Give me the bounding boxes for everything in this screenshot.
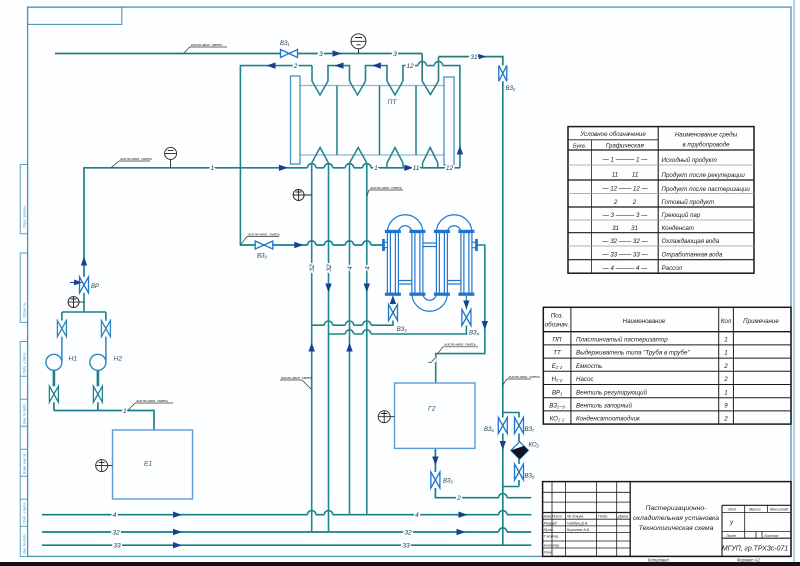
valve labels <box>91 41 540 485</box>
svg-text:— 3 ——— 3 —: — 3 ——— 3 — <box>602 212 649 219</box>
pump Н2 <box>90 354 106 370</box>
wire pump discharge stubs <box>54 370 98 386</box>
ТТ shell bridges <box>398 243 461 284</box>
arrow left on line 2 <box>267 62 276 68</box>
top-left corner stamp notch <box>28 7 122 24</box>
svg-text:Пластинчатый пастеризатор: Пластинчатый пастеризатор <box>576 337 668 344</box>
plate pasteurizer ПТ body edges <box>300 86 444 156</box>
svg-text:32: 32 <box>309 264 316 272</box>
svg-text:4: 4 <box>347 266 354 270</box>
svg-text:Подп. и дата: Подп. и дата <box>22 353 26 374</box>
svg-text:Копировал: Копировал <box>648 557 669 562</box>
svg-text:— 12 —— 12 —: — 12 —— 12 — <box>601 186 648 193</box>
gauge at valve ВР <box>68 297 84 308</box>
svg-text:Пастеризационно-: Пастеризационно- <box>646 505 708 512</box>
wire drop line2 to funnel 1 <box>311 66 313 81</box>
svg-text:31 31: 31 31 <box>612 225 638 232</box>
svg-text:Кирилов А.Б.: Кирилов А.Б. <box>567 527 591 532</box>
svg-text:11 11: 11 11 <box>612 172 639 179</box>
arrow left on bridge 2-3 <box>372 62 381 68</box>
ТТ top bend tubes 1-2 <box>387 215 423 233</box>
svg-text:Утв.: Утв. <box>544 550 553 555</box>
left margin column upper block 1 <box>20 165 27 234</box>
svg-text:1: 1 <box>210 165 214 172</box>
svg-text:кисло-мол. смесь: кисло-мол. смесь <box>121 156 152 161</box>
equipment labels <box>69 99 436 468</box>
valve pump 1 discharge <box>49 386 58 402</box>
svg-text:Букв.: Букв. <box>573 144 586 150</box>
break symbol on Г2 feed pipe <box>428 356 436 362</box>
svg-text:ВР₁: ВР₁ <box>552 389 562 396</box>
svg-text:Г2: Г2 <box>428 406 436 413</box>
arrow up on riser 32a <box>309 343 315 352</box>
wire condensate branch split <box>503 413 519 487</box>
svg-text:Вентиль регулирующий: Вентиль регулирующий <box>576 389 648 396</box>
valve ВЗ5 <box>431 472 440 488</box>
svg-text:Графическая: Графическая <box>606 143 645 150</box>
arrow right on line 31 <box>477 53 486 59</box>
left margin lower block cells <box>20 342 27 557</box>
svg-text:Лист: Лист <box>725 533 737 538</box>
svg-text:— 32 —— 32 —: — 32 —— 32 — <box>601 238 648 245</box>
valve pump 2 discharge <box>93 386 102 402</box>
ТТ tube 3 <box>436 233 447 294</box>
svg-text:Взам. инв. №: Взам. инв. № <box>22 453 26 474</box>
svg-text:№ докум.: № докум. <box>567 514 584 519</box>
wire vertical 4 riser a <box>349 163 351 515</box>
steam trap КО2 <box>511 442 528 459</box>
svg-text:2: 2 <box>293 63 298 70</box>
svg-text:ВЗ₉: ВЗ₉ <box>257 254 268 260</box>
svg-text:ПТ: ПТ <box>388 99 398 106</box>
svg-text:Продукт после пастеризации: Продукт после пастеризации <box>662 186 751 193</box>
svg-text:Перв. примен.: Перв. примен. <box>22 205 26 228</box>
ТТ tube 4 <box>461 233 472 294</box>
svg-text:Продукт после рекуперации: Продукт после рекуперации <box>662 172 746 179</box>
svg-text:31: 31 <box>470 54 478 61</box>
ПТ bottom peak 3 with leg stubs <box>387 148 403 168</box>
svg-text:ВЗ₂: ВЗ₂ <box>506 86 517 92</box>
wire condensate riser funnel4 to line 31 <box>438 57 440 81</box>
svg-text:Инв. № дубл.: Инв. № дубл. <box>22 403 26 424</box>
svg-text:Вентиль запорный: Вентиль запорный <box>576 403 632 410</box>
page edge line right <box>793 0 794 566</box>
ТТ bottom bend tubes 2-3 <box>412 294 448 312</box>
wire vertical 32 riser a <box>311 163 313 532</box>
ТТ tube 2 <box>412 233 423 294</box>
svg-text:Подп. и дата: Подп. и дата <box>22 503 26 524</box>
valve ВЗ7 <box>515 418 524 434</box>
wire pump outlet header to tank Е1 <box>54 402 154 430</box>
svg-text:кисло-мол. смесь: кисло-мол. смесь <box>281 375 312 380</box>
svg-text:в трубопроводе: в трубопроводе <box>682 142 730 149</box>
arrow up on riser 4a <box>346 343 352 352</box>
wire line 2 top with drop to valve ВЗ9 branch <box>240 66 312 246</box>
ПТ left end plate <box>291 76 301 164</box>
svg-text:Дата: Дата <box>617 514 629 519</box>
tank Г2 <box>395 383 476 448</box>
valve ВЗ8 <box>515 464 524 480</box>
svg-text:ВЗ₃: ВЗ₃ <box>397 327 408 333</box>
svg-text:Конденсатоотводчик: Конденсатоотводчик <box>576 416 641 423</box>
title block frame <box>543 482 791 557</box>
wire bridge funnel2-funnel3 <box>366 66 388 81</box>
svg-text:ВЗ₁: ВЗ₁ <box>280 41 290 47</box>
gauge at pasteurizer water outlet <box>293 190 312 201</box>
wire bottom line 33 <box>42 544 531 546</box>
left margin column upper block 2 <box>20 253 27 322</box>
ПТ top funnel 1 <box>312 81 328 95</box>
svg-text:ВЗ₄: ВЗ₄ <box>469 331 480 337</box>
valve pump 1 suction <box>57 321 66 337</box>
valve ВЗ6 <box>498 418 507 434</box>
svg-text:Изм.Лист: Изм.Лист <box>544 514 563 519</box>
svg-text:— 4 ——— 4 —: — 4 ——— 4 — <box>602 265 649 272</box>
svg-text:Отработанная вода: Отработанная вода <box>662 252 723 259</box>
arrow down on holder outlet drop <box>482 321 488 330</box>
svg-text:Греющий пар: Греющий пар <box>662 212 701 219</box>
svg-text:— 33 —— 33 —: — 33 —— 33 — <box>601 252 648 259</box>
svg-text:2 2: 2 2 <box>613 199 637 206</box>
svg-text:32: 32 <box>112 529 120 536</box>
ТТ top bend tubes 3-4 <box>436 215 472 233</box>
svg-text:кисло-мол. смесь: кисло-мол. смесь <box>137 398 168 403</box>
arrow down on riser 4b <box>364 284 370 293</box>
arrow down above valve ВЗ4 <box>463 301 469 310</box>
legend table (Условные обозначения) <box>568 127 754 274</box>
pump Н1 <box>46 354 62 370</box>
arrow left on bridge 1-2 <box>335 62 344 68</box>
svg-text:1: 1 <box>724 350 727 357</box>
svg-text:4: 4 <box>113 512 117 519</box>
wire line 12 from funnel3 over top to right side <box>403 66 460 168</box>
parts list table <box>543 307 791 424</box>
svg-text:кисло-мол. смесь: кисло-мол. смесь <box>509 374 540 379</box>
valve ВЗ1 <box>281 50 298 58</box>
ПТ bottom peak 1 <box>312 148 329 164</box>
arrow right on valve ВЗ9 line <box>294 242 303 248</box>
svg-text:1: 1 <box>374 165 378 172</box>
svg-text:Справ. №: Справ. № <box>22 302 26 318</box>
svg-text:Наименование среды: Наименование среды <box>675 132 738 139</box>
arrow right on line 32 left <box>173 529 182 535</box>
valve ВЗ2 <box>499 65 507 81</box>
svg-text:кисло-мол. смесь: кисло-мол. смесь <box>445 342 476 347</box>
wire pump suction stubs <box>62 337 106 362</box>
svg-text:3: 3 <box>319 51 323 58</box>
wire valve ВР to pumps header <box>62 293 106 321</box>
svg-text:Кол: Кол <box>721 318 732 325</box>
svg-text:Е1: Е1 <box>144 461 153 468</box>
wire cooling water line to valve ВЗ3 <box>312 321 393 326</box>
svg-text:3: 3 <box>393 51 397 58</box>
svg-text:Конденсат: Конденсат <box>662 225 694 232</box>
svg-text:Технологическая схема: Технологическая схема <box>639 525 714 532</box>
arrow right on line 33 left <box>173 542 182 548</box>
svg-text:Н.контр.: Н.контр. <box>544 543 560 548</box>
svg-text:Рассол: Рассол <box>662 265 683 272</box>
ПТ section dividers <box>337 86 416 156</box>
ТТ drain stubs to valves <box>393 296 467 310</box>
svg-text:Н1: Н1 <box>69 356 78 363</box>
pipe name callouts <box>111 42 540 411</box>
svg-text:МГУП, гр.ТРХЗс-071: МГУП, гр.ТРХЗс-071 <box>722 546 789 553</box>
svg-text:Охлаждающая вода: Охлаждающая вода <box>662 238 720 245</box>
svg-text:1: 1 <box>724 389 727 396</box>
svg-text:Формат А2: Формат А2 <box>737 557 761 562</box>
svg-text:КО₂: КО₂ <box>529 443 540 449</box>
svg-text:Листов: Листов <box>763 533 778 538</box>
svg-text:ВЗ₈: ВЗ₈ <box>525 474 536 480</box>
arrow right on line 11 <box>404 165 413 171</box>
wire bottom line 4 <box>42 514 531 516</box>
svg-text:ВЗ₇: ВЗ₇ <box>525 427 536 433</box>
svg-text:Поз.: Поз. <box>551 313 563 320</box>
svg-text:ВЗ₁₋₉: ВЗ₁₋₉ <box>549 403 565 410</box>
svg-text:33: 33 <box>113 543 121 550</box>
svg-text:— 1 ——— 1 —: — 1 ——— 1 — <box>602 157 649 164</box>
svg-text:Выдерживатель типа "Труба в тр: Выдерживатель типа "Труба в трубе" <box>576 350 690 357</box>
wire tank Г2 outlet to valve ВЗ5 and line 2 <box>435 448 531 497</box>
wire bottom line 32 <box>42 531 531 533</box>
wire valve ВЗ9 line to tube holder inlet <box>240 244 383 246</box>
svg-text:Чайбук Д.А.: Чайбук Д.А. <box>567 520 588 525</box>
ТТ tube 1 <box>387 233 398 294</box>
svg-text:Масса: Масса <box>749 506 761 511</box>
crossing gaps <box>308 64 508 534</box>
crossing jump arcs <box>308 61 508 532</box>
svg-text:Наименование: Наименование <box>623 318 666 325</box>
arrow right on line 4 left <box>173 512 182 518</box>
arrow down on condensate branch <box>500 441 506 450</box>
page bottom dark strip <box>0 562 800 566</box>
arrow up to valve ВР <box>81 257 87 266</box>
ТТ outlet stub <box>472 242 476 247</box>
wire brine line to valve ВЗ4 <box>329 326 467 335</box>
valve ВЗ3 <box>389 305 398 321</box>
svg-text:кисло-мол. смесь: кисло-мол. смесь <box>371 185 402 190</box>
svg-text:Н2: Н2 <box>114 356 123 363</box>
svg-text:2: 2 <box>723 376 728 383</box>
title block document title <box>633 505 788 553</box>
wire condensate main vertical <box>502 81 504 545</box>
svg-text:11: 11 <box>413 165 420 172</box>
svg-text:1: 1 <box>724 337 727 344</box>
svg-text:Емкость: Емкость <box>576 363 602 370</box>
parts list text <box>545 313 780 423</box>
svg-text:Е₁·₂: Е₁·₂ <box>552 363 563 370</box>
svg-text:4: 4 <box>364 266 371 270</box>
svg-text:Лит.: Лит. <box>727 506 737 511</box>
svg-text:ВЗ₅: ВЗ₅ <box>443 479 454 485</box>
valve ВЗ9 <box>255 241 273 249</box>
arrow down on riser 32b <box>325 284 331 293</box>
svg-text:Т.контр.: Т.контр. <box>544 534 560 539</box>
svg-text:Инв. № подл.: Инв. № подл. <box>22 533 26 554</box>
arrow right on line 4 right <box>459 512 468 518</box>
wire tube holder outlet down to tank Г2 <box>436 245 485 383</box>
arrow up on line 12 riser <box>457 146 463 155</box>
ТТ flanges <box>382 230 478 296</box>
svg-text:32: 32 <box>326 264 333 272</box>
svg-text:ТТ: ТТ <box>553 350 562 357</box>
ПТ bottom peak 4 with leg stubs <box>423 148 438 168</box>
svg-text:Подп.: Подп. <box>598 514 608 519</box>
svg-text:1: 1 <box>123 408 127 415</box>
ПТ bottom peak 2 <box>350 148 367 164</box>
ПТ right end plate <box>444 77 454 165</box>
valve pump 2 suction <box>101 321 110 337</box>
svg-text:2: 2 <box>723 363 728 370</box>
left margin vertical tiny texts <box>22 205 26 554</box>
arrow up above valve ВЗ3 <box>390 296 396 305</box>
svg-text:9: 9 <box>724 403 728 410</box>
svg-text:4: 4 <box>415 512 419 519</box>
svg-text:охладительная установка: охладительная установка <box>633 514 719 522</box>
arrow right on line 1 inlet <box>279 165 288 171</box>
svg-text:ВР: ВР <box>91 284 99 290</box>
svg-text:Условное обозначение: Условное обозначение <box>579 131 646 138</box>
wire line 1-11-12 bottom of pasteurizer and left riser to valve ВР <box>84 168 460 277</box>
svg-text:ПП: ПП <box>553 337 562 344</box>
ПТ top funnel 2 <box>350 81 366 95</box>
arrow right on line 3 <box>333 50 342 56</box>
arrow right on line 32 right <box>457 529 466 535</box>
wire bridge funnel1-funnel2 <box>328 66 350 81</box>
svg-text:кисло-мол. смесь: кисло-мол. смесь <box>249 231 280 236</box>
wire steam drop from line 3 to funnel 4 <box>421 54 423 82</box>
ПТ top funnel 3 <box>387 81 403 95</box>
gauge at tank Г2 <box>378 411 394 423</box>
wire line 3 steam header <box>55 53 422 55</box>
wire vertical 4 riser b <box>366 163 368 515</box>
svg-text:обознач.: обознач. <box>545 322 570 329</box>
legend table text <box>573 131 750 272</box>
svg-text:кисло-мол. смесь: кисло-мол. смесь <box>191 42 222 47</box>
svg-text:32: 32 <box>404 529 412 536</box>
valve ВЗ4 <box>462 310 471 326</box>
svg-text:Исходный продукт: Исходный продукт <box>662 157 717 164</box>
svg-text:Масштаб: Масштаб <box>770 506 789 511</box>
svg-text:12: 12 <box>406 63 414 70</box>
gauge on steam line <box>351 34 366 54</box>
svg-text:Насос: Насос <box>576 376 594 383</box>
svg-text:Н₁·₂: Н₁·₂ <box>552 376 563 383</box>
svg-text:Разраб.: Разраб. <box>544 520 558 525</box>
svg-text:12: 12 <box>446 165 454 172</box>
tube-in-tube holder ТТ <box>384 215 477 312</box>
title block texts <box>544 506 789 554</box>
svg-text:КО₁·₂: КО₁·₂ <box>550 416 565 423</box>
wire vertical 32 riser b <box>328 163 330 532</box>
svg-text:Примечание: Примечание <box>743 318 779 325</box>
svg-text:33: 33 <box>402 543 410 550</box>
gauge at tank Е1 <box>96 460 113 472</box>
tank Е1 <box>113 430 193 499</box>
ТТ inlet stub <box>384 242 388 247</box>
arrow down on tank Г2 outlet <box>432 457 438 466</box>
svg-text:Пров.: Пров. <box>544 527 554 532</box>
svg-text:2: 2 <box>456 495 461 502</box>
svg-text:ВЗ₆: ВЗ₆ <box>484 427 495 433</box>
wire line 31 condensate header <box>439 57 503 66</box>
arrow into valve ВР <box>70 280 81 285</box>
ПТ top funnel 4 <box>422 81 438 95</box>
gauge on product line 1 <box>165 147 177 167</box>
svg-text:Готовый продукт: Готовый продукт <box>662 199 715 206</box>
valve ВР regulating <box>80 277 89 293</box>
line number labels <box>112 51 478 550</box>
svg-text:2: 2 <box>723 416 728 423</box>
